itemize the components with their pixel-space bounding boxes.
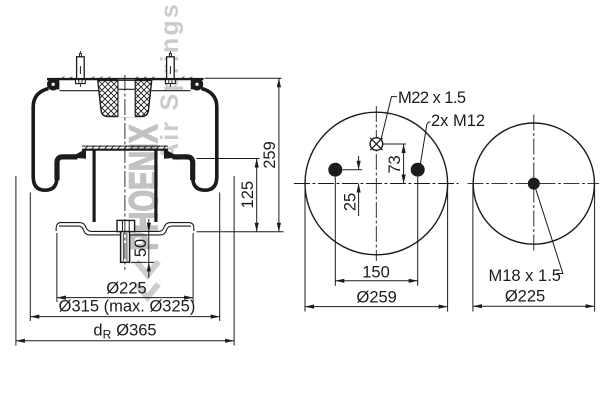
top view vertical centerline	[375, 106, 377, 261]
bolt M12 right	[411, 163, 425, 177]
rolled edge left	[47, 78, 59, 90]
dim line D365	[16, 340, 234, 342]
ext line piston step (125)	[197, 158, 260, 160]
leader M18	[536, 189, 563, 273]
bellows wedge right	[164, 149, 180, 159]
svg-text:150: 150	[362, 264, 390, 282]
stud right	[166, 51, 176, 87]
ext lines D259	[304, 184, 306, 312]
air fitting M22	[370, 138, 383, 151]
ext lines D365	[15, 176, 17, 346]
ext lines D225	[56, 233, 58, 302]
svg-text:M22 x 1.5: M22 x 1.5	[398, 89, 466, 107]
ext lines D225 right view	[472, 184, 474, 312]
centerline left view	[124, 75, 126, 270]
dim line D259	[305, 306, 448, 308]
bottom view circle	[473, 123, 594, 244]
arrows dim 150	[335, 279, 417, 283]
piston skirt left wall	[92, 151, 95, 223]
dim line D225	[57, 297, 193, 299]
svg-text:Ø225: Ø225	[505, 288, 545, 306]
leader 2x M12	[420, 122, 430, 165]
arrows left view	[16, 78, 281, 343]
dim 50 line	[148, 219, 150, 278]
bolt end tick	[131, 261, 154, 263]
dim line D225 right view	[473, 305, 595, 307]
rubber bumper (crosshatched)	[98, 80, 152, 118]
bottom view vertical centerline	[533, 115, 535, 253]
arrows dim 25	[357, 161, 361, 193]
arrows dim D259	[305, 305, 448, 309]
leader M22	[381, 97, 397, 140]
center bolt M18	[528, 178, 540, 190]
svg-text:Ø225: Ø225	[106, 280, 146, 298]
bellows wedge left	[70, 149, 86, 159]
hex bolt head	[117, 220, 135, 231]
svg-text:125: 125	[239, 181, 257, 209]
bottom view horizontal centerline	[468, 183, 600, 185]
svg-text:50: 50	[132, 239, 150, 257]
svg-text:2x M12: 2x M12	[431, 112, 485, 130]
watermark chevron logo	[137, 262, 159, 276]
svg-text:Ø315 (max. Ø325): Ø315 (max. Ø325)	[59, 298, 196, 316]
dim 25	[343, 156, 363, 216]
dim line D315	[30, 316, 219, 318]
bellows outline right	[193, 89, 217, 191]
svg-text:M18 x 1.5: M18 x 1.5	[489, 267, 561, 285]
piston top band (hatched)	[82, 146, 168, 151]
dim 73	[383, 144, 406, 184]
bellows outline left	[33, 89, 57, 191]
stud left	[76, 51, 86, 87]
bolt shaft	[121, 232, 130, 263]
svg-text:73: 73	[386, 155, 404, 173]
svg-text:259: 259	[261, 141, 279, 169]
piston skirt right wall	[154, 151, 157, 223]
ext line plate bottom	[197, 231, 284, 233]
bolt extension lines	[334, 177, 336, 286]
top view circle	[305, 112, 448, 255]
top plate	[47, 78, 204, 80]
bellows fold collar left	[57, 157, 78, 180]
plate underside line left	[60, 90, 99, 92]
top plate section ticks	[62, 77, 192, 78]
bolt M12 left	[328, 163, 342, 177]
dim line 150	[335, 280, 417, 282]
bellows fold collar right	[173, 157, 193, 180]
plate underside line right	[152, 90, 191, 92]
ext lines D315	[29, 193, 31, 322]
arrows dim D225 right view	[473, 304, 595, 308]
ext line top (259)	[205, 77, 282, 79]
dim line 259	[278, 78, 280, 232]
dim line 125	[256, 159, 258, 232]
bottom plate	[56, 223, 194, 235]
rolled edge right	[191, 78, 203, 90]
top view horizontal centerline	[294, 183, 459, 185]
arrows dim 73	[402, 144, 406, 184]
svg-text:Ø259: Ø259	[357, 289, 397, 307]
svg-text:25: 25	[342, 193, 360, 211]
